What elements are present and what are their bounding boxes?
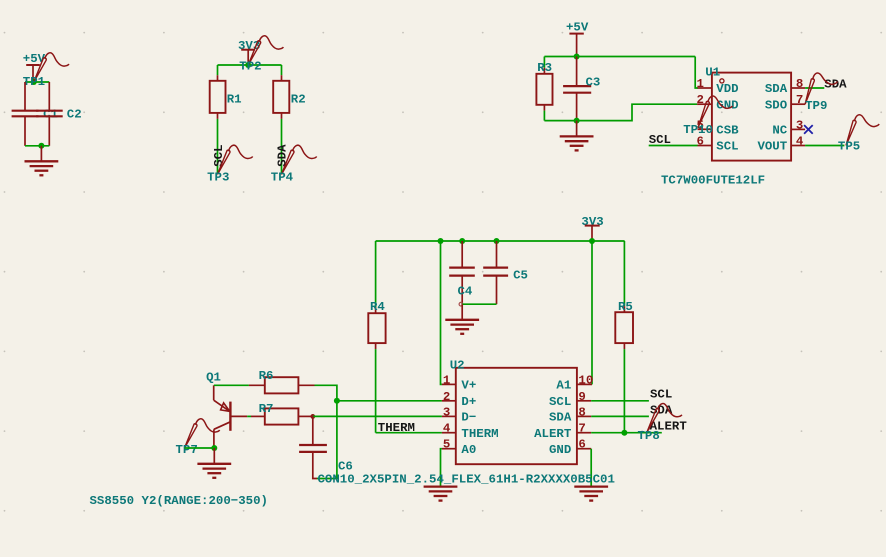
- wire: [375, 349, 377, 433]
- capacitor C4: [449, 241, 475, 306]
- svg-text:+5V: +5V: [566, 20, 589, 34]
- node junction: [589, 238, 595, 244]
- svg-text:SDA: SDA: [824, 77, 847, 91]
- wire: [281, 65, 283, 75]
- capacitor C3: [563, 57, 600, 121]
- svg-text:5: 5: [443, 438, 450, 452]
- capacitor C6: [299, 416, 353, 478]
- svg-text:C6: C6: [338, 460, 353, 474]
- wire: [544, 56, 695, 58]
- ground: [197, 448, 231, 478]
- svg-text:D−: D−: [461, 411, 476, 425]
- svg-text:2: 2: [696, 93, 703, 107]
- node junction: [438, 238, 444, 244]
- wire SDA: [591, 415, 649, 417]
- transistor Q1 SS8550: [206, 370, 247, 448]
- wire: [649, 145, 698, 147]
- pin 2 U1: [696, 93, 711, 107]
- svg-text:8: 8: [796, 77, 803, 91]
- svg-text:9: 9: [578, 390, 585, 404]
- resistor R2: [273, 75, 305, 119]
- testpoint TP5: [838, 113, 881, 154]
- svg-text:CON10_2X5PIN_2.54_FLEX_61H1-R2: CON10_2X5PIN_2.54_FLEX_61H1-R2XXXX0B5C01: [318, 473, 615, 487]
- pin 4 U1: [791, 135, 805, 149]
- svg-text:4: 4: [796, 135, 804, 149]
- pin 3 U2: [442, 405, 456, 419]
- pin 5 U1: [696, 118, 711, 132]
- pin 6 U2: [577, 438, 591, 452]
- pin 1 U1: [696, 77, 711, 91]
- IC U2: [450, 359, 577, 464]
- wire: [25, 145, 49, 147]
- svg-text:GND: GND: [549, 443, 571, 457]
- pin 9 U2: [577, 390, 591, 404]
- capacitor C1: [12, 82, 58, 146]
- svg-text:10: 10: [578, 373, 593, 387]
- svg-text:C2: C2: [67, 107, 82, 121]
- svg-text:C4: C4: [458, 284, 473, 298]
- resistor R1: [210, 75, 242, 119]
- wire: [315, 385, 337, 478]
- svg-text:7: 7: [796, 93, 803, 107]
- resistor R3: [536, 57, 552, 121]
- capacitor C5: [483, 241, 528, 304]
- ground: [25, 146, 59, 176]
- wire 3V3 rail: [376, 240, 625, 242]
- wire: [375, 241, 377, 307]
- testpoint TP4: [271, 145, 317, 184]
- svg-text:2: 2: [443, 390, 450, 404]
- resistor R4: [368, 300, 385, 349]
- resistor R5: [615, 241, 633, 349]
- ground: [445, 304, 479, 334]
- node junction: [211, 445, 217, 451]
- node junction: [38, 143, 44, 149]
- wire: [544, 104, 697, 120]
- svg-text:C1: C1: [43, 107, 58, 121]
- svg-text:R5: R5: [618, 300, 633, 314]
- pin 2 U2: [442, 390, 456, 404]
- testpoint TP1: [23, 53, 69, 89]
- svg-text:SCL: SCL: [549, 395, 571, 409]
- svg-text:TC7W00FUTE12LF: TC7W00FUTE12LF: [661, 173, 765, 187]
- wire D-: [313, 415, 442, 417]
- testpoint TP2: [239, 36, 283, 74]
- wire: [217, 65, 219, 75]
- testpoint TP8: [638, 404, 682, 443]
- svg-text:U2: U2: [450, 359, 465, 373]
- node TP1 junction: [31, 79, 37, 85]
- wire: [623, 349, 625, 433]
- testpoint TP3: [207, 145, 253, 184]
- wire: [805, 87, 824, 89]
- svg-text:A1: A1: [556, 379, 571, 393]
- pin 10 U2: [577, 373, 593, 387]
- svg-text:3: 3: [796, 118, 803, 132]
- svg-text:R1: R1: [227, 93, 242, 107]
- svg-text:VOUT: VOUT: [757, 140, 787, 154]
- pin 7 U2: [577, 422, 591, 436]
- wire pin10 drop: [591, 241, 593, 384]
- svg-text:4: 4: [443, 422, 451, 436]
- svg-text:CSB: CSB: [716, 124, 739, 138]
- svg-text:R2: R2: [291, 93, 306, 107]
- svg-text:GND: GND: [716, 98, 738, 112]
- wire GND pin to ground: [590, 449, 592, 487]
- wire: [281, 119, 283, 174]
- svg-text:C3: C3: [586, 76, 601, 90]
- pin 1 U2: [442, 373, 456, 387]
- svg-text:TP10: TP10: [683, 123, 713, 137]
- node junction: [494, 238, 500, 244]
- svg-text:TP3: TP3: [207, 171, 229, 185]
- wire: [462, 303, 496, 305]
- wire SCL: [591, 400, 649, 402]
- svg-text:R3: R3: [537, 61, 552, 75]
- svg-text:+5V: +5V: [23, 52, 46, 66]
- resistor R7: [247, 402, 313, 425]
- power 3V3 (mid-top): [238, 39, 260, 65]
- node junction: [459, 238, 465, 244]
- power +5V (top-right): [566, 20, 589, 56]
- svg-text:8: 8: [578, 405, 585, 419]
- svg-text:SS8550 Y2(RANGE:200−350): SS8550 Y2(RANGE:200−350): [90, 494, 268, 508]
- svg-text:D+: D+: [461, 395, 476, 409]
- svg-text:1: 1: [443, 373, 450, 387]
- svg-text:R4: R4: [370, 300, 385, 314]
- svg-text:THERM: THERM: [461, 427, 498, 441]
- svg-text:A0: A0: [461, 443, 476, 457]
- wire: [217, 119, 219, 174]
- power +5V (top-left): [23, 52, 46, 82]
- power 3V3 (bottom): [581, 215, 603, 241]
- testpoint TP10: [683, 95, 733, 137]
- svg-text:NC: NC: [772, 124, 787, 138]
- svg-text:R7: R7: [259, 402, 274, 416]
- IC U1 TC7W00FUTE12LF: [661, 66, 791, 188]
- svg-text:TP9: TP9: [805, 99, 827, 113]
- svg-text:TP2: TP2: [239, 60, 261, 74]
- resistor R6: [249, 369, 315, 394]
- wire A0 to ground: [441, 449, 442, 487]
- wire D+: [337, 400, 442, 402]
- svg-text:Q1: Q1: [206, 370, 221, 384]
- svg-text:V+: V+: [461, 379, 476, 393]
- svg-text:R6: R6: [259, 369, 274, 383]
- ground: [560, 121, 594, 151]
- svg-text:7: 7: [578, 422, 585, 436]
- pin 5 U2: [442, 438, 456, 452]
- node junction: [334, 398, 340, 404]
- pin 3 U1: [791, 118, 805, 132]
- svg-text:SDA: SDA: [549, 411, 572, 425]
- svg-text:C5: C5: [513, 268, 528, 282]
- svg-text:1: 1: [696, 77, 703, 91]
- svg-text:TP1: TP1: [23, 75, 45, 89]
- testpoint TP9: [801, 70, 840, 113]
- wire: [695, 57, 698, 89]
- wire V+ drop: [441, 241, 442, 384]
- svg-text:SCL: SCL: [650, 387, 672, 401]
- svg-text:SCL: SCL: [716, 140, 738, 154]
- svg-text:TP8: TP8: [638, 429, 660, 443]
- svg-text:TP4: TP4: [271, 171, 294, 185]
- svg-text:U1: U1: [705, 66, 720, 80]
- pin 8 U2: [577, 405, 591, 419]
- wire: [25, 81, 49, 83]
- node junction: [621, 430, 627, 436]
- svg-text:TP5: TP5: [838, 139, 860, 153]
- node junction: [310, 414, 315, 419]
- capacitor C2: [36, 82, 82, 146]
- svg-text:SDA: SDA: [765, 82, 788, 96]
- pin 6 U1: [696, 135, 711, 149]
- ground: [424, 487, 458, 501]
- node TP2 junction: [245, 62, 251, 68]
- wire: [214, 384, 249, 386]
- svg-text:VDD: VDD: [716, 82, 738, 96]
- svg-text:6: 6: [578, 438, 585, 452]
- pin 8 U1: [791, 77, 805, 91]
- svg-text:SDO: SDO: [765, 98, 787, 112]
- pin 7 U1: [791, 93, 805, 107]
- ground: [574, 487, 608, 501]
- wire: [218, 64, 282, 66]
- node junction: [574, 54, 580, 60]
- no-connect pin 3: [804, 125, 813, 134]
- node junction: [574, 118, 580, 124]
- testpoint TP7: [176, 419, 220, 457]
- wire ALERT: [591, 432, 662, 434]
- svg-text:TP7: TP7: [176, 443, 198, 457]
- wire: [185, 447, 215, 449]
- wire: [805, 145, 844, 147]
- svg-text:3: 3: [443, 405, 450, 419]
- pin 4 U2: [442, 422, 456, 436]
- wire THERM: [376, 432, 442, 434]
- svg-text:ALERT: ALERT: [534, 427, 572, 441]
